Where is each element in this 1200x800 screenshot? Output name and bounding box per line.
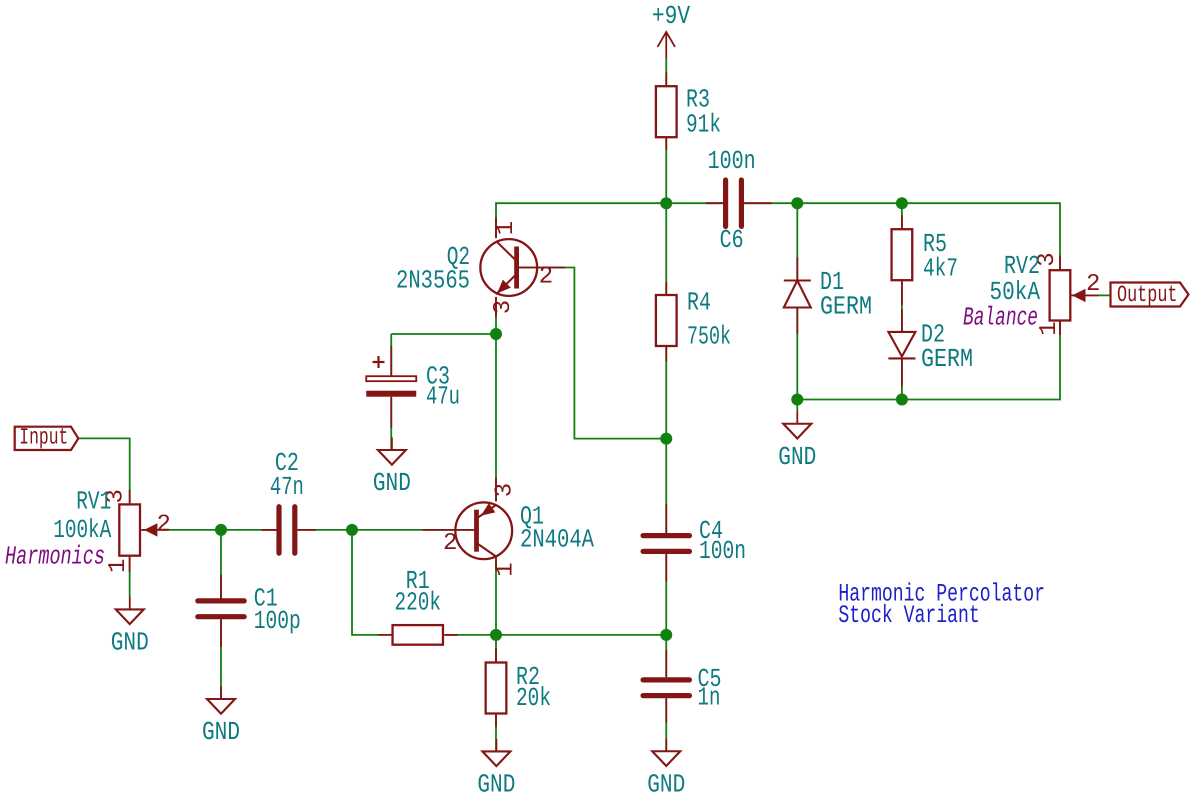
svg-text:2: 2 — [539, 264, 553, 291]
wire RV2 wiper to Output — [1072, 294, 1111, 296]
pin stub Q1 pin 1 stub — [495, 556, 497, 570]
wire top bus to R5 — [901, 203, 903, 228]
wire node E to C3 branch — [391, 333, 496, 335]
svg-text:750k: 750k — [687, 321, 731, 351]
pin stub R2 bottom pin stub — [495, 714, 497, 728]
svg-text:3: 3 — [490, 300, 517, 314]
svg-text:100n: 100n — [699, 536, 746, 566]
wire bottom bus to RV2 pin1 — [797, 322, 1060, 400]
potentiometer RV1 — [119, 504, 157, 555]
svg-text:20k: 20k — [516, 683, 551, 713]
wire node F to C4 — [665, 439, 667, 535]
pin stub C4 top pin stub — [665, 504, 667, 534]
wire D2 to bottom bus — [901, 358, 903, 399]
wire C6 to RV2 pin3 — [742, 203, 1060, 269]
pin stub R4 top pin stub — [665, 282, 667, 295]
svg-text:GND: GND — [647, 769, 685, 799]
svg-text:91k: 91k — [686, 110, 721, 140]
svg-text:GERM: GERM — [921, 344, 973, 374]
wire node C to node D — [496, 634, 666, 636]
wire +9V to R3 — [665, 58, 667, 85]
svg-text:GND: GND — [202, 717, 240, 747]
svg-text:100p: 100p — [254, 606, 301, 636]
capacitor C1 — [198, 601, 244, 617]
svg-text:47u: 47u — [426, 382, 460, 412]
pin stub R1 right pin stub — [444, 634, 457, 636]
svg-text:GND: GND — [477, 769, 515, 799]
wire Q1 emitter pin1 to node C — [495, 560, 497, 635]
svg-text:2: 2 — [443, 530, 457, 557]
pin stub C2 right pin stub — [297, 529, 316, 531]
resistor R3 — [656, 86, 677, 137]
svg-text:Output: Output — [1117, 282, 1178, 308]
wire C3 to GND — [390, 397, 392, 450]
wire C2 to node B — [297, 529, 352, 531]
pin stub R1 left pin stub — [379, 634, 392, 636]
svg-text:1: 1 — [493, 221, 520, 235]
wire Q2 pin1 up to top bus — [496, 203, 666, 238]
svg-text:2N3565: 2N3565 — [396, 265, 470, 295]
capacitor C5 — [643, 680, 689, 696]
svg-text:47n: 47n — [270, 472, 304, 502]
svg-text:GERM: GERM — [820, 292, 872, 322]
ground under R2 — [482, 739, 510, 766]
node A junction — [215, 524, 227, 536]
pin stub D1 anode pin stub — [796, 308, 798, 334]
pin stub R5 bottom pin stub — [901, 280, 903, 305]
svg-text:Balance: Balance — [963, 303, 1038, 333]
transistor Q1 2N404A PNP — [455, 502, 512, 559]
resistor R5 — [892, 229, 913, 280]
ground under C3 — [378, 438, 406, 465]
node D junction — [660, 629, 672, 641]
svg-text:GND: GND — [778, 442, 816, 472]
svg-text:3: 3 — [492, 483, 519, 497]
pin stub D1 cathode pin stub — [796, 257, 798, 280]
svg-text:Input: Input — [19, 424, 68, 450]
wire R2 to GND — [495, 714, 497, 752]
svg-text:4k7: 4k7 — [923, 254, 958, 284]
wire node A down to C1 — [220, 530, 222, 599]
pin stub R4 bottom pin stub — [665, 346, 667, 361]
pin stub C6 left pin stub — [706, 202, 725, 204]
pin stub C1 bottom pin stub — [220, 619, 222, 647]
top bus junction 3 — [896, 197, 908, 209]
pin stub Q2 pin 3 stub — [495, 297, 497, 317]
wire R3 to top bus — [665, 138, 667, 204]
diode D1 pointing up — [784, 281, 811, 308]
pin stub C2 left pin stub — [262, 529, 277, 531]
svg-text:1: 1 — [1036, 321, 1063, 335]
wire node D to C5 — [665, 635, 667, 677]
svg-text:1: 1 — [493, 562, 520, 576]
svg-text:100n: 100n — [708, 146, 756, 176]
pin stub RV1 pin 3 stub — [129, 490, 131, 503]
pin stub Q2 base pin 2 stub — [519, 267, 565, 269]
svg-text:+9V: +9V — [652, 1, 691, 31]
ground under C5 — [652, 739, 680, 766]
top bus junction 2 — [791, 197, 803, 209]
wire RV1 wiper to node A — [141, 529, 221, 531]
pin stub C3 plus pin stub — [390, 346, 392, 376]
capacitor C3 electrolytic — [366, 356, 416, 397]
resistor R1 — [393, 625, 443, 645]
wire R5 to D2 — [901, 281, 903, 332]
wire C4 to node D — [665, 553, 667, 635]
transistor Q2 2N3565 NPN — [480, 239, 537, 296]
pin stub R3 bottom pin stub — [665, 137, 667, 150]
svg-text:1n: 1n — [698, 683, 721, 713]
wire R4 to node F — [665, 347, 667, 438]
pin stub R3 top pin stub — [665, 73, 667, 87]
svg-text:RV1: RV1 — [76, 486, 111, 516]
wire R1 to node C — [444, 634, 496, 636]
wire bottom bus to GND — [796, 400, 798, 412]
wire top bus to D1 — [796, 203, 798, 280]
wire Q2 pin2 to node F — [519, 268, 666, 439]
svg-text:Stock Variant: Stock Variant — [838, 601, 979, 630]
pin stub RV1 pin 1 stub — [129, 557, 131, 572]
pin stub D2 cathode pin stub — [901, 359, 903, 386]
svg-text:2: 2 — [157, 512, 171, 539]
capacitor C6 — [726, 180, 742, 226]
pin stub Q2 pin 1 stub — [495, 218, 497, 239]
svg-text:220k: 220k — [395, 587, 442, 617]
pin stub RV1 pin 2 stub — [141, 529, 167, 531]
svg-text:2N404A: 2N404A — [520, 525, 594, 555]
wire top bus to C6 — [666, 202, 725, 204]
capacitor C2 — [279, 507, 295, 553]
global label Input — [15, 427, 79, 450]
node E junction — [490, 328, 502, 340]
svg-text:1: 1 — [105, 559, 132, 573]
node F junction — [660, 433, 672, 445]
capacitor C4 — [643, 536, 689, 552]
pin stub R2 top pin stub — [495, 648, 497, 663]
wire node B down to R1 — [352, 530, 379, 635]
wire node E to Q1 pin3 — [495, 334, 497, 501]
ground under D1 node — [783, 411, 811, 438]
ground under C1 — [207, 687, 235, 714]
wire Input to RV1 pin3 — [78, 438, 129, 503]
pin stub C6 right pin stub — [742, 202, 772, 204]
svg-text:GND: GND — [373, 468, 411, 498]
node B junction — [346, 524, 358, 536]
pin stub RV2 pin 1 stub — [1059, 321, 1061, 336]
potentiometer RV2 — [1050, 270, 1086, 320]
pin stub Q1 base pin 2 stub — [423, 529, 475, 531]
svg-text:GND: GND — [111, 627, 149, 657]
node C junction — [490, 629, 502, 641]
pin stub RV2 pin 3 stub — [1059, 256, 1061, 271]
pin stub D2 anode pin stub — [901, 309, 903, 332]
pin stub Q1 pin 3 stub — [495, 478, 497, 502]
top bus junction 1 — [660, 197, 672, 209]
resistor R4 — [656, 295, 677, 346]
resistor R2 — [486, 663, 507, 714]
pin stub R5 top pin stub — [901, 215, 903, 229]
diode D2 pointing down — [888, 332, 915, 359]
pin stub C5 bottom pin stub — [665, 698, 667, 722]
svg-text:R4: R4 — [687, 287, 711, 317]
svg-text:Harmonics: Harmonics — [5, 541, 105, 571]
pin stub C4 bottom pin stub — [665, 553, 667, 581]
wire RV1 pin1 to GND — [129, 557, 131, 597]
bottom bus junction 1 — [791, 394, 803, 406]
bottom bus junction 2 — [896, 394, 908, 406]
pin stub C3 minus pin stub — [390, 397, 392, 428]
wire D1 to bottom bus — [796, 308, 798, 400]
svg-text:C6: C6 — [720, 225, 744, 255]
global label Output — [1111, 283, 1189, 307]
wire node B to Q1 base — [352, 529, 474, 531]
wire Q2 pin3 to node E — [495, 297, 497, 334]
power +9V symbol — [658, 32, 676, 58]
wire top bus to R4 — [665, 203, 667, 294]
wire node A to C2 — [221, 529, 276, 531]
wire node C to R2 — [495, 635, 497, 662]
wire C1 to GND — [220, 619, 222, 699]
wire C5 to GND — [665, 698, 667, 751]
svg-text:2: 2 — [1086, 271, 1100, 298]
pin stub RV2 pin 2 stub — [1072, 294, 1099, 296]
ground under RV1 — [116, 597, 144, 624]
wire down to C3 plus — [390, 334, 392, 376]
pin stub C5 top pin stub — [665, 650, 667, 677]
pin stub C1 top pin stub — [220, 575, 222, 599]
